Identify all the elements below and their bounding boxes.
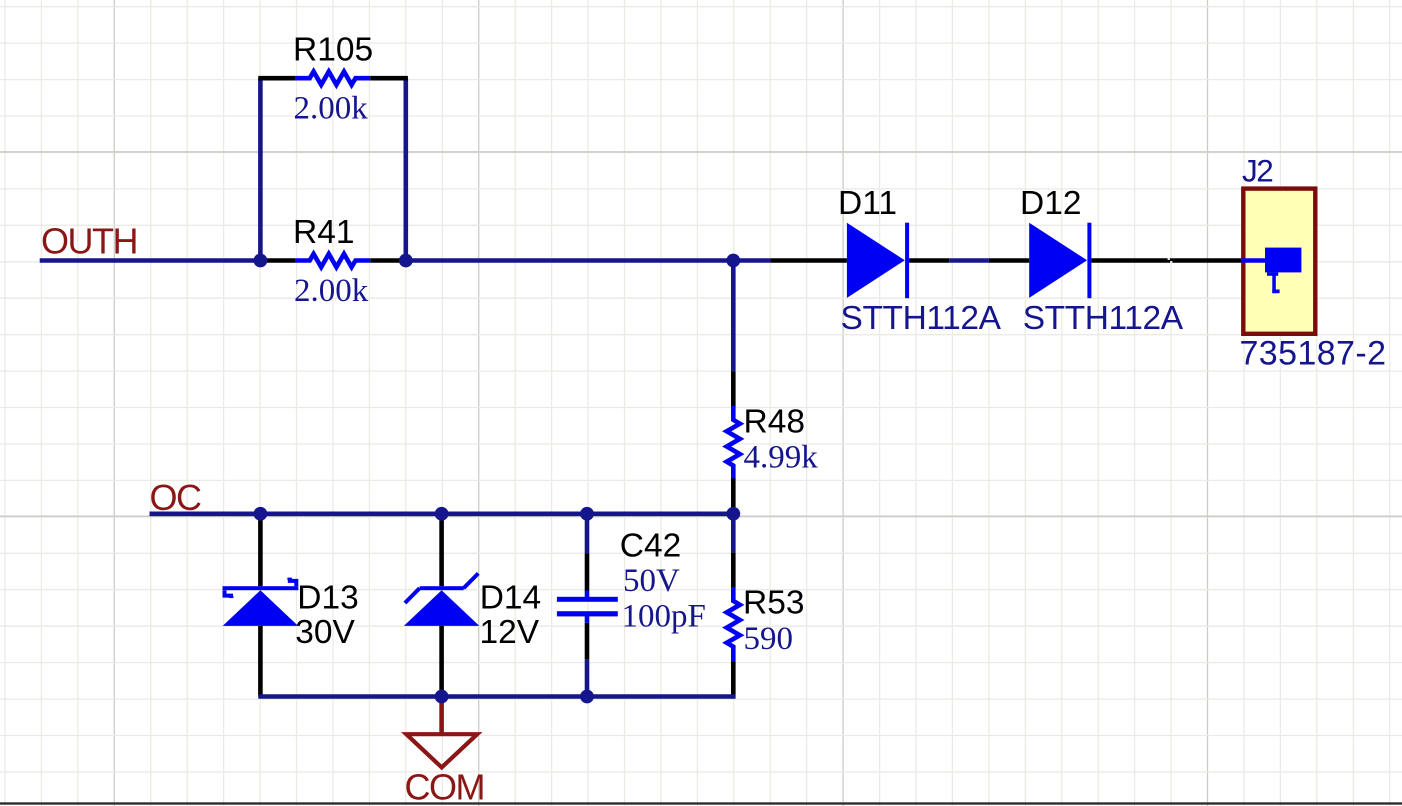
- svg-text:590: 590: [744, 621, 794, 657]
- svg-text:R41: R41: [293, 214, 354, 251]
- svg-text:100pF: 100pF: [622, 599, 706, 635]
- svg-text:STTH112A: STTH112A: [1023, 300, 1184, 337]
- svg-text:2.00k: 2.00k: [294, 273, 369, 309]
- svg-text:STTH112A: STTH112A: [841, 300, 1002, 337]
- svg-text:J2: J2: [1242, 152, 1272, 188]
- svg-text:R53: R53: [743, 585, 804, 622]
- svg-text:COM: COM: [405, 767, 485, 806]
- svg-text:D14: D14: [480, 579, 541, 616]
- svg-text:R105: R105: [293, 32, 373, 69]
- svg-text:30V: 30V: [295, 614, 355, 651]
- svg-text:2.00k: 2.00k: [294, 91, 369, 127]
- svg-text:R48: R48: [744, 403, 805, 440]
- svg-text:50V: 50V: [623, 563, 680, 599]
- svg-text:D11: D11: [838, 185, 897, 222]
- svg-text:12V: 12V: [480, 614, 540, 651]
- svg-text:C42: C42: [620, 527, 681, 564]
- svg-text:OC: OC: [150, 477, 202, 518]
- svg-text:D12: D12: [1020, 185, 1081, 222]
- svg-text:OUTH: OUTH: [41, 221, 137, 262]
- svg-text:4.99k: 4.99k: [744, 440, 819, 476]
- svg-text:D13: D13: [297, 579, 358, 616]
- svg-text:735187-2: 735187-2: [1240, 335, 1387, 373]
